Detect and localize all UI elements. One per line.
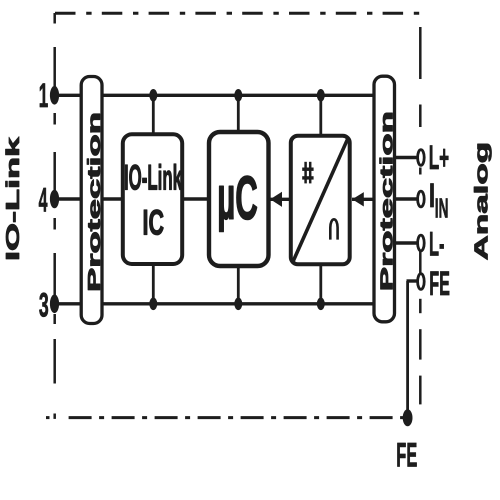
svg-text:IN: IN [435,193,449,224]
svg-text:3: 3 [39,285,49,324]
svg-text:IO-Link: IO-Link [124,159,182,198]
svg-text:4: 4 [39,181,48,219]
svg-text:1: 1 [39,77,48,115]
svg-text:µC: µC [217,164,258,233]
svg-text:Analog: Analog [471,142,491,261]
svg-text:L+: L+ [429,139,450,177]
svg-text:IO-Link: IO-Link [3,135,23,261]
svg-text:IC: IC [143,204,165,243]
svg-text:Protection: Protection [377,111,397,291]
svg-text:L-: L- [429,226,445,264]
svg-text:FE: FE [396,436,417,474]
svg-text:Protection: Protection [84,112,104,292]
svg-text:FE: FE [429,265,450,303]
